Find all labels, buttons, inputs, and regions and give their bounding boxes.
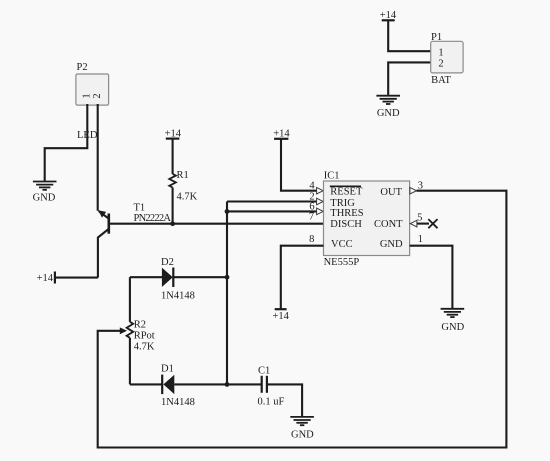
wire +14 to T1 collector — [55, 277, 98, 279]
svg-text:GND: GND — [291, 429, 314, 440]
wire P2 pin2 to T1 emitter — [97, 104, 99, 211]
svg-text:2: 2 — [92, 93, 103, 98]
svg-text:R1: R1 — [177, 170, 189, 181]
ground (LED) — [33, 182, 57, 190]
svg-text:DISCH: DISCH — [330, 219, 362, 230]
wire GND (pin 1) — [410, 246, 453, 309]
node: D1 / vertical / C1 junction — [225, 382, 230, 387]
wire P1 pin2 to GND — [388, 62, 431, 95]
svg-text:BAT: BAT — [431, 75, 451, 86]
resistor R1 4.7K — [169, 139, 197, 224]
no-connect X (pin 5) — [428, 219, 437, 228]
wire T1 base to IC1 DISCH (pin 7) — [109, 223, 324, 225]
wire TRIG (pin 2) — [227, 200, 317, 202]
R2 labels — [134, 320, 155, 353]
svg-text:8: 8 — [309, 234, 314, 245]
capacitor C1 — [258, 366, 285, 408]
wire C1 to GND — [267, 384, 302, 416]
svg-text:RESET: RESET — [330, 187, 363, 198]
ground (C1) — [290, 417, 314, 425]
diode D1 — [130, 364, 261, 409]
svg-text:D1: D1 — [161, 364, 174, 375]
svg-text:OUT: OUT — [380, 187, 402, 198]
wire left vertical (bottom) — [129, 338, 131, 385]
svg-text:D2: D2 — [161, 257, 174, 268]
+14 supply (RESET) — [273, 128, 290, 139]
svg-text:THRES: THRES — [330, 208, 363, 219]
+14 supply (R1 top) — [165, 128, 182, 139]
svg-text:VCC: VCC — [331, 239, 353, 250]
connector P2 — [76, 62, 109, 105]
pin 3 output arrow — [410, 187, 417, 194]
+14 supply (P1) — [380, 10, 397, 21]
svg-text:RPot: RPot — [134, 331, 155, 342]
svg-text:P2: P2 — [77, 62, 88, 73]
svg-text:1N4148: 1N4148 — [161, 397, 195, 408]
node: R1 / T1 base / DISCH junction — [170, 221, 175, 226]
svg-text:5: 5 — [417, 212, 422, 223]
svg-text:NE555P: NE555P — [324, 257, 360, 268]
wire TRIG-THRES vertical to D2/D1 — [226, 202, 228, 385]
svg-text:GND: GND — [33, 193, 56, 204]
wire D2 branch left vertical (top) — [129, 277, 131, 322]
wire P2 pin1 to GND — [45, 104, 88, 182]
transistor T1 — [98, 203, 172, 278]
R2 wiper arrow — [120, 327, 127, 334]
svg-text:C1: C1 — [258, 366, 270, 377]
+14 supply (VCC) — [272, 309, 289, 322]
svg-text:PN2222A: PN2222A — [134, 213, 172, 224]
wire THRES (pin 6) — [227, 210, 317, 212]
svg-text:2: 2 — [438, 59, 443, 70]
pin 6 input arrow — [317, 208, 324, 215]
svg-text:CONT: CONT — [374, 219, 403, 230]
pin 5 CONT arrow — [410, 220, 417, 227]
svg-text:4: 4 — [309, 181, 315, 192]
svg-text:1: 1 — [418, 234, 423, 245]
resistor R2 zigzag — [127, 322, 134, 338]
svg-text:7: 7 — [309, 212, 314, 223]
svg-text:1: 1 — [438, 48, 443, 59]
connector P1 — [431, 32, 463, 86]
wire CONT stub — [417, 223, 429, 225]
pin 4 input arrow — [317, 187, 324, 194]
+14 supply (T1 collector) — [37, 272, 55, 285]
wire VCC (pin 8) to +14 — [281, 246, 324, 309]
svg-text:1: 1 — [82, 93, 93, 98]
pin 2 input arrow — [317, 198, 324, 205]
svg-text:GND: GND — [377, 108, 400, 119]
wire +14 to P1 pin1 — [388, 20, 431, 51]
svg-text:T1: T1 — [134, 203, 146, 214]
svg-text:0.1 uF: 0.1 uF — [258, 396, 285, 407]
diode D2 — [130, 257, 227, 302]
ground (P1) — [376, 96, 400, 104]
IC1 NE555P — [324, 170, 410, 267]
svg-text:IC1: IC1 — [324, 170, 340, 181]
wire OUT (pin 3) loop to R2 wiper — [98, 191, 507, 448]
svg-text:4.7K: 4.7K — [177, 191, 198, 202]
svg-text:+14: +14 — [37, 273, 54, 284]
wire +14 to RESET (pin 4) — [281, 139, 317, 191]
node: TRIG/THRES junction — [225, 209, 230, 214]
svg-text:4.7K: 4.7K — [134, 342, 155, 353]
svg-text:R2: R2 — [134, 320, 146, 331]
node: D2 / vertical junction — [225, 275, 230, 280]
svg-text:1N4148: 1N4148 — [161, 291, 195, 302]
svg-text:GND: GND — [441, 322, 464, 333]
ground (IC1) — [441, 309, 465, 317]
svg-text:GND: GND — [380, 239, 403, 250]
svg-text:+14: +14 — [272, 311, 289, 322]
